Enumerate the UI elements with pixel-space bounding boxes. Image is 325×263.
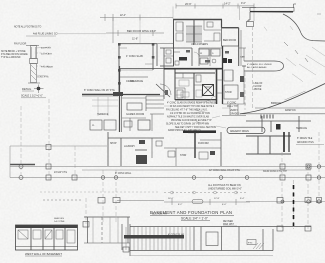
drive turnaround <box>244 61 284 71</box>
svg-text:14'-2": 14'-2" <box>224 1 231 5</box>
svg-text:11'-6": 11'-6" <box>132 38 138 41</box>
east wing lower rooms <box>246 132 291 154</box>
svg-text:HALL: HALL <box>130 80 137 83</box>
terrace square <box>138 120 150 130</box>
svg-text:AREAWAY DRAIN: AREAWAY DRAIN <box>230 130 249 133</box>
bedroom wall posts <box>118 43 154 85</box>
lower dim texts <box>168 198 245 206</box>
svg-text:MAR 1957: MAR 1957 <box>223 223 235 226</box>
interior partitions center <box>175 48 246 116</box>
misc right edge tick <box>317 13 321 15</box>
lower dim capsule <box>192 200 203 204</box>
revision note <box>223 221 237 226</box>
dimension line bedroom wing <box>58 30 164 36</box>
dimension line lower <box>43 199 250 205</box>
long section detail right part <box>122 224 311 256</box>
svg-text:SCALE 1 1/2"=1'-0": SCALE 1 1/2"=1'-0" <box>21 95 43 98</box>
section text <box>254 83 264 91</box>
bedroom 1 <box>118 21 173 96</box>
svg-text:WALL TYP: WALL TYP <box>227 105 238 108</box>
steps east of games <box>146 96 164 111</box>
main top wall <box>173 20 239 28</box>
column detail leader text <box>37 48 53 79</box>
footing row y200 <box>83 198 322 232</box>
svg-text:UNDISTURBED SOIL MIN 3'-6": UNDISTURBED SOIL MIN 3'-6" <box>208 188 242 191</box>
foundation line D <box>10 177 325 179</box>
dimension text upper <box>185 1 246 5</box>
svg-text:4" CONC SLAB ON GRADE REINF W: 4" CONC SLAB ON GRADE REINF W 6x6 MESH <box>167 102 217 105</box>
detail caption <box>21 87 46 98</box>
interior tiny marks <box>165 50 229 95</box>
svg-text:GRADES: GRADES <box>230 112 240 115</box>
svg-text:8'-2": 8'-2" <box>178 204 183 206</box>
door swing small 1 <box>194 52 199 57</box>
east wing hall <box>223 46 247 104</box>
svg-text:SCALE 1/4" = 1'-0": SCALE 1/4" = 1'-0" <box>181 216 208 220</box>
svg-text:SECTION A-A: SECTION A-A <box>152 213 167 216</box>
south wall bedroom wing <box>82 92 160 96</box>
column detail D1 <box>26 46 50 84</box>
svg-text:TERRACE: TERRACE <box>97 113 109 116</box>
svg-text:FIN CEILING HT 7'-6" THIS AREA: FIN CEILING HT 7'-6" THIS AREA U.N.O. <box>166 108 208 111</box>
svg-text:SEE DET 3 SHT 7 FOR WALL SECTI: SEE DET 3 SHT 7 FOR WALL SECTION <box>175 126 216 129</box>
svg-text:VERIFY: VERIFY <box>230 110 239 112</box>
study room <box>174 48 192 66</box>
svg-text:4" CONC SLAB: 4" CONC SLAB <box>168 234 184 237</box>
svg-text:PROVIDE FLOOR DRAIN EA SIDE TY: PROVIDE FLOOR DRAIN EA SIDE TYP <box>171 119 212 122</box>
foundation line B <box>10 166 325 168</box>
svg-text:NOTE BRICK + STONE: NOTE BRICK + STONE <box>1 51 26 53</box>
cabinet note <box>54 218 65 223</box>
svg-text:REVISED: REVISED <box>223 221 233 223</box>
svg-text:GAMES ROOM: GAMES ROOM <box>126 112 144 116</box>
column line F circles <box>164 191 246 194</box>
parapet steps <box>247 12 254 27</box>
west wall band <box>10 164 35 166</box>
east edge notes <box>297 137 314 144</box>
svg-text:RAMP DN: RAMP DN <box>285 109 296 112</box>
vertical dim line <box>112 18 114 43</box>
games table <box>127 103 142 110</box>
column line G dark dashes <box>293 185 295 226</box>
south thick wall <box>183 130 216 133</box>
svg-text:STOR: STOR <box>180 155 187 157</box>
svg-text:GAR: GAR <box>240 56 245 59</box>
cabinet doors <box>18 230 75 243</box>
section lower edge <box>130 255 273 257</box>
svg-text:AROUND FTGS: AROUND FTGS <box>297 141 314 144</box>
column symbol dot <box>34 85 44 94</box>
bridge lines <box>240 108 325 114</box>
leader lines center <box>164 100 230 128</box>
living room furniture <box>175 80 202 97</box>
stair hall partitions <box>204 20 222 42</box>
contour lines <box>264 26 325 82</box>
east wing rooms <box>246 116 311 132</box>
drive upper curve <box>283 14 325 41</box>
chimney <box>203 85 214 96</box>
east edge note rule <box>296 144 324 146</box>
svg-text:12'-8": 12'-8" <box>214 198 220 200</box>
bedroom 1 interior <box>119 48 153 70</box>
corridor walls <box>157 44 174 99</box>
east fixtures <box>222 58 232 63</box>
cabinet caption <box>25 252 62 256</box>
svg-text:16'-0": 16'-0" <box>168 198 174 200</box>
long section detail left part <box>84 217 130 243</box>
svg-text:2x4 PLATE: 2x4 PLATE <box>41 53 52 56</box>
foundation line C <box>82 169 311 171</box>
svg-text:1/2 GYP BD ON 1x2 FURRING AT C: 1/2 GYP BD ON 1x2 FURRING AT CLG <box>170 112 210 115</box>
east wing steps <box>261 115 273 119</box>
svg-text:TYP ALL AROUND: TYP ALL AROUND <box>1 56 21 59</box>
lower fixtures dark <box>139 140 215 155</box>
svg-text:SLOPE SLAB TO DRAIN 1/8" PER F: SLOPE SLAB TO DRAIN 1/8" PER FT MIN <box>166 122 209 125</box>
svg-text:CONC FTG: CONC FTG <box>37 77 49 79</box>
general note <box>208 184 242 191</box>
note text top-left <box>14 26 58 46</box>
lower rooms band <box>108 132 221 166</box>
living room walls <box>175 69 217 104</box>
footing notes <box>54 169 287 175</box>
svg-text:WEST WALL OF BASEMENT: WEST WALL OF BASEMENT <box>25 252 62 256</box>
section left verticals <box>93 217 118 243</box>
retaining wall west <box>82 94 118 96</box>
svg-text:FIN GRADE: FIN GRADE <box>41 66 53 69</box>
door swing arc <box>160 84 171 95</box>
main walls verticals <box>174 20 242 67</box>
svg-text:8" CONC WALL ON 16" FTG: 8" CONC WALL ON 16" FTG <box>84 89 115 92</box>
svg-text:SHOP: SHOP <box>110 143 117 145</box>
svg-text:ALL PAVED AREAS: ALL PAVED AREAS <box>247 66 267 69</box>
svg-text:UP 14 RISERS: UP 14 RISERS <box>191 43 208 46</box>
svg-text:22'-4": 22'-4" <box>120 15 126 17</box>
svg-text:6'-0": 6'-0" <box>222 204 227 206</box>
svg-text:FTG BELOW FIN GRADE: FTG BELOW FIN GRADE <box>1 53 28 56</box>
section footings <box>123 247 129 252</box>
foundation left end <box>9 146 11 178</box>
section hatch <box>253 243 264 249</box>
games partitions <box>122 98 164 131</box>
svg-text:ABOVE: ABOVE <box>254 88 262 91</box>
note block left <box>1 51 28 59</box>
lower rooms text <box>110 143 209 157</box>
bath block <box>164 48 222 66</box>
svg-text:BED ROOM: BED ROOM <box>223 39 236 42</box>
svg-text:6" DRAIN TILE: 6" DRAIN TILE <box>297 137 313 140</box>
games room left walls <box>119 66 164 132</box>
svg-text:4" GRAVEL FILL UNDER: 4" GRAVEL FILL UNDER <box>247 63 272 66</box>
terrace paving lines <box>92 97 118 116</box>
foundation line A <box>10 145 107 147</box>
svg-text:SHELVES: SHELVES <box>54 218 64 220</box>
joist lines <box>126 227 190 250</box>
turnaround text <box>247 63 272 69</box>
west cabinet detail <box>16 225 78 250</box>
svg-text:ASPHALT TILE ON MASTIC OVER SL: ASPHALT TILE ON MASTIC OVER SLAB <box>167 115 209 118</box>
svg-text:W 6x6 10/10 MESH TYP UNO SEE N: W 6x6 10/10 MESH TYP UNO SEE NOTE 4 <box>170 106 215 108</box>
drive inner edge <box>285 91 306 100</box>
column footing symbols mid <box>19 145 321 204</box>
svg-text:NOTE ALL FOOTINGS TO: NOTE ALL FOOTINGS TO <box>14 26 41 29</box>
svg-text:12" CONC WALL ON 24" FTG: 12" CONC WALL ON 24" FTG <box>209 169 240 172</box>
svg-text:TERRACE: TERRACE <box>296 127 307 130</box>
stairs upper <box>186 26 202 42</box>
garden wall band <box>242 4 296 12</box>
svg-text:4x4 POST: 4x4 POST <box>41 48 52 50</box>
svg-text:BED ROOM WING 24'-0": BED ROOM WING 24'-0" <box>127 29 156 33</box>
joist dark band <box>124 235 184 239</box>
joint arrows <box>284 42 308 62</box>
section line east <box>245 26 253 110</box>
svg-text:24"x24" FTG: 24"x24" FTG <box>54 172 67 174</box>
title <box>150 210 234 220</box>
svg-text:FIN FLOOR: FIN FLOOR <box>14 44 27 46</box>
dimension line left wing <box>100 14 173 21</box>
svg-text:1x12 PINE: 1x12 PINE <box>54 221 65 223</box>
drive lower curve <box>240 84 325 114</box>
door swing small 2 <box>210 96 216 102</box>
bath texts <box>200 53 214 55</box>
svg-text:LINE OF: LINE OF <box>254 83 264 85</box>
callout capsule <box>227 127 265 133</box>
svg-text:BRIDGE: BRIDGE <box>271 101 281 105</box>
foundation line E <box>246 201 325 203</box>
svg-text:8" CONC WALL: 8" CONC WALL <box>115 172 132 175</box>
top dimension line upper <box>176 4 254 22</box>
closets upper <box>176 22 183 41</box>
extension line corner <box>172 7 174 20</box>
svg-text:26'-6": 26'-6" <box>185 2 192 6</box>
main cross wall <box>164 69 222 73</box>
svg-text:30x30 CONC FTG TYP: 30x30 CONC FTG TYP <box>263 171 287 173</box>
planter boxes <box>90 120 116 130</box>
section box note <box>247 240 256 245</box>
west column line <box>21 99 75 180</box>
svg-text:4x8 FLUE LINING CO: 4x8 FLUE LINING CO <box>33 33 58 36</box>
svg-text:FTG: FTG <box>248 243 253 245</box>
svg-text:DETAIL: DETAIL <box>22 87 32 91</box>
svg-text:STOR: STOR <box>225 91 232 94</box>
bedroom east <box>222 28 239 46</box>
svg-text:9'-4": 9'-4" <box>240 198 245 200</box>
svg-text:FURN RM: FURN RM <box>198 143 209 145</box>
annotation texts center <box>166 102 240 133</box>
svg-text:FLOOR: FLOOR <box>254 86 262 88</box>
svg-text:9'-0": 9'-0" <box>241 2 246 5</box>
svg-text:4" CONC SLAB: 4" CONC SLAB <box>126 55 143 58</box>
column line F dashed <box>40 132 319 229</box>
stair diagonal <box>156 84 170 97</box>
svg-text:LAUNDRY: LAUNDRY <box>124 145 135 148</box>
